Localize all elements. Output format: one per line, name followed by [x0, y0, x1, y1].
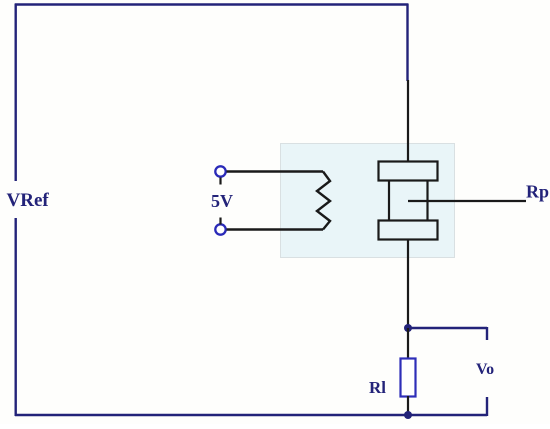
wire resistor Rl to bottom junction: [407, 396, 409, 415]
sensor enclosure shaded box: [281, 144, 455, 258]
coil heater zigzag: [317, 172, 330, 230]
svg-text:VRef: VRef: [7, 190, 50, 211]
wire coil to 5V bottom terminal: [227, 228, 324, 230]
potentiometer Rp bottom plate: [379, 221, 438, 240]
wire top horizontal VRef to Rp top: [15, 3, 408, 5]
svg-text:Rl: Rl: [369, 378, 386, 397]
resistor Rl body: [401, 359, 416, 397]
potentiometer Rp top lead: [407, 80, 409, 161]
wire left vertical upper segment: [14, 4, 16, 182]
potentiometer Rp wiper line: [408, 200, 526, 202]
potentiometer Rp bottom lead: [407, 240, 409, 329]
Vo bracket upper stub: [486, 327, 488, 340]
wire 5V top terminal to coil: [227, 170, 324, 172]
terminal circle 5V bottom: [215, 224, 225, 234]
Vo bracket lower stub: [486, 397, 488, 416]
wire junction down to resistor Rl: [407, 328, 409, 358]
potentiometer Rp body left side: [388, 181, 390, 221]
wire junction to Vo bracket: [408, 327, 487, 329]
junction node dot lower: [404, 411, 412, 419]
svg-text:5V: 5V: [211, 191, 233, 211]
svg-text:Vo: Vo: [476, 361, 494, 378]
wire bottom horizontal: [15, 414, 487, 417]
potentiometer Rp body right side: [426, 181, 428, 221]
wire right vertical from top (blue part): [406, 4, 408, 82]
svg-text:Rp: Rp: [526, 182, 549, 202]
terminal stub above bottom circle: [219, 218, 221, 225]
terminal circle 5V top: [215, 166, 225, 176]
terminal stub below top circle: [219, 178, 221, 185]
wire left vertical lower segment: [14, 218, 16, 416]
junction node dot upper: [404, 324, 412, 332]
potentiometer Rp top plate: [379, 162, 438, 181]
